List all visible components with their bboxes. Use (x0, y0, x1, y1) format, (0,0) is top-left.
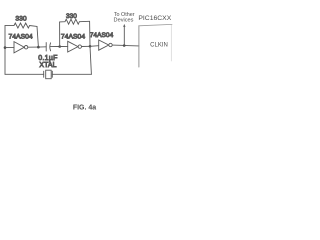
wire loop1 left vertical (4, 26, 6, 75)
svg-text:330: 330 (66, 13, 77, 20)
wire loop1 right vertical (37, 26, 38, 47)
wire to other devices (vertical with arrow) (123, 26, 125, 45)
node B (junction dot U2 in) (58, 45, 61, 48)
svg-text:74AS04: 74AS04 (61, 34, 85, 41)
wire U1 input stub (5, 46, 14, 48)
wire loop2 right vertical (89, 21, 91, 46)
node C (junction dot U2 out) (89, 45, 92, 48)
svg-text:0.1µF: 0.1µF (38, 55, 58, 62)
wire bottom rail left (5, 73, 44, 75)
wire U2 input stub (60, 46, 68, 48)
wire U1 output (28, 46, 39, 48)
wire U2 output (82, 45, 91, 47)
wire U3 input (90, 45, 99, 48)
svg-text:330: 330 (15, 15, 27, 22)
node D (junction dot to other devices) (123, 44, 126, 47)
op-amp U2 inverter 74AS04 (68, 41, 82, 52)
wire riser node C down to crystal (90, 46, 91, 74)
op-amp U1 inverter 74AS04 (14, 42, 28, 53)
resistor R2 330 feedback loop 2 (60, 19, 90, 24)
svg-text:Devices: Devices (114, 18, 134, 24)
svg-text:FIG. 4a: FIG. 4a (73, 105, 96, 112)
svg-text:74AS04: 74AS04 (90, 32, 114, 39)
wire bottom rail right (52, 73, 91, 75)
arrowhead up (123, 24, 125, 27)
crystal XTAL (44, 70, 53, 79)
op-amp U3 inverter 74AS04 (99, 40, 113, 50)
wire capacitor to node B (50, 46, 60, 48)
svg-text:XTAL: XTAL (39, 62, 56, 69)
wire node A to capacitor (38, 46, 46, 48)
svg-text:74AS04: 74AS04 (9, 34, 33, 41)
svg-text:PIC16CXX: PIC16CXX (138, 15, 171, 22)
wire loop2 left vertical (59, 22, 61, 47)
wire U3 output to PIC (112, 44, 139, 47)
svg-text:CLKIN: CLKIN (150, 42, 168, 48)
capacitor C1 0.1uF (46, 43, 50, 51)
PIC16CXX box (139, 24, 172, 67)
node input of U1 (junction dot) (4, 46, 7, 49)
node A (junction dot U1 out) (37, 46, 40, 49)
resistor R1 330 feedback loop 1 (5, 23, 37, 28)
